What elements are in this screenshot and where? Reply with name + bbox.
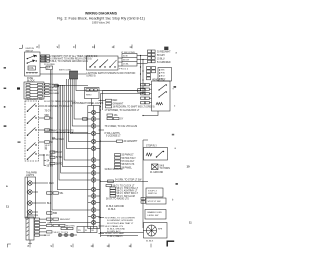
relay K1 box bbox=[25, 52, 41, 76]
bulb L7 bbox=[91, 158, 95, 162]
label dense cluster y155-166 bbox=[115, 154, 137, 167]
legend bottom rows bbox=[78, 230, 95, 232]
fuse out wires bbox=[44, 84, 50, 96]
svg-text:58 GY/WHT, ASH TRAY LT: 58 GY/WHT, ASH TRAY LT bbox=[107, 222, 134, 225]
headlight relay box bbox=[152, 81, 171, 111]
grid tick top 8 bbox=[36, 45, 39, 50]
tail out wire 4 bbox=[32, 211, 38, 213]
svg-text:RED: RED bbox=[49, 183, 54, 185]
lamp chain inner wire bbox=[93, 106, 95, 229]
svg-text:B/U: B/U bbox=[161, 76, 165, 78]
lamp left stubs bbox=[88, 113, 92, 223]
bottom connector ground stub bbox=[28, 240, 32, 243]
svg-text:COIL: COIL bbox=[29, 68, 35, 70]
svg-text:LEVEL SW: LEVEL SW bbox=[148, 215, 160, 217]
br connector rows bbox=[141, 198, 146, 204]
grid tick bottom 4 bbox=[91, 244, 94, 249]
left margin dash y88 bbox=[4, 88, 7, 89]
br box label bbox=[146, 188, 163, 197]
round component bbox=[144, 223, 168, 239]
svg-text:GY: GY bbox=[120, 118, 124, 120]
label conn rows bbox=[123, 56, 130, 66]
grid tick bottom 5 bbox=[107, 244, 110, 249]
wire sw to conn 2 bbox=[118, 61, 122, 63]
bulb L16 bbox=[91, 220, 95, 224]
label cluster row 5 bbox=[107, 114, 118, 117]
headlight relay contact 1 bbox=[158, 84, 167, 90]
bulb L4 bbox=[91, 131, 95, 135]
svg-text:GRN: GRN bbox=[47, 222, 52, 224]
svg-text:54 GRN, TO STOP LT SW: 54 GRN, TO STOP LT SW bbox=[115, 179, 142, 181]
grid blob right y87 bbox=[174, 86, 177, 88]
svg-text:30 RED/WHT: 30 RED/WHT bbox=[157, 52, 171, 54]
long wire y85.5 bbox=[54, 85, 88, 87]
svg-text:75 GY: 75 GY bbox=[45, 111, 52, 113]
svg-text:58 GRY: 58 GRY bbox=[157, 55, 165, 57]
bc extra rows bbox=[107, 222, 134, 233]
connector on y181 bbox=[108, 180, 114, 182]
tail inner wire bbox=[27, 177, 29, 218]
label cluster row 3 bbox=[106, 106, 155, 109]
tail out wire 1 bbox=[32, 182, 48, 184]
horizontal wire y90 bbox=[103, 90, 141, 92]
connector sw out 3 bbox=[45, 129, 50, 131]
lamps bbox=[91, 110, 95, 224]
svg-text:8 TAIL LIGHTS: 8 TAIL LIGHTS bbox=[105, 132, 121, 135]
relay bottom terminal row bbox=[26, 72, 38, 74]
svg-text:WIRING DIAGRAMS: WIRING DIAGRAMS bbox=[85, 12, 118, 16]
fuse out connectors bbox=[45, 83, 49, 94]
wire relay out 2 bbox=[40, 58, 47, 60]
svg-text:57 FOG RLY: 57 FOG RLY bbox=[122, 161, 135, 163]
svg-text:(GRID 9): (GRID 9) bbox=[87, 76, 96, 78]
flasher box bbox=[152, 164, 159, 170]
connector sw out 4 bbox=[45, 141, 50, 143]
connector boxes relay outputs bbox=[41, 55, 50, 62]
svg-text:STOP LT SW: STOP LT SW bbox=[148, 201, 162, 203]
lamp right stubs bbox=[96, 113, 100, 223]
ignition switch arm 3 bbox=[110, 60, 117, 67]
connector block B bbox=[147, 67, 156, 80]
connector block A bbox=[148, 50, 156, 63]
grid corner bottom-right bold bbox=[167, 241, 174, 246]
svg-text:INSTRUMENT PANEL LIGHTS: INSTRUMENT PANEL LIGHTS bbox=[72, 102, 104, 105]
svg-text:58 GY, ASHTRAY LT: 58 GY, ASHTRAY LT bbox=[117, 190, 138, 193]
switch element 1 bbox=[27, 104, 37, 112]
bulb L15 bbox=[91, 214, 95, 218]
ignition switch arm 1 bbox=[90, 60, 98, 68]
bottom connector hatch bbox=[27, 218, 29, 236]
wire long feed bbox=[40, 73, 87, 75]
bus strip pins bbox=[71, 71, 77, 78]
label cluster row 6 bbox=[107, 117, 124, 120]
crossing wire y132 bbox=[44, 132, 88, 134]
wire conn to bus 2 bbox=[137, 59, 148, 61]
svg-text:SWITCH: SWITCH bbox=[148, 193, 157, 195]
wire sw to conn 1 bbox=[118, 57, 122, 59]
svg-text:N/S: N/S bbox=[161, 70, 165, 72]
wire to wiper box 1 bbox=[101, 232, 144, 234]
svg-text:58 GY, TO PANEL LTS (GRID 9): 58 GY, TO PANEL LTS (GRID 9) bbox=[44, 100, 76, 103]
bottom connector divider bbox=[28, 217, 30, 240]
svg-text:58 GY, TO RADIO LTS: 58 GY, TO RADIO LTS bbox=[106, 197, 129, 200]
connector on wire y85.5 bbox=[54, 84, 58, 86]
svg-text:RL: RL bbox=[85, 230, 87, 232]
label block A bbox=[157, 52, 171, 64]
extra cluster row y166 bbox=[115, 166, 133, 169]
svg-text:58R: 58R bbox=[53, 213, 58, 215]
wire lamp out y130 bbox=[99, 129, 105, 131]
label left y157 row bbox=[50, 156, 63, 159]
headlight relay bottom wire bbox=[143, 111, 158, 116]
svg-text:20 GRN/WHT: 20 GRN/WHT bbox=[124, 141, 139, 143]
brake warn box bbox=[145, 210, 166, 220]
horizontal wire y93 bbox=[101, 93, 144, 95]
bulb L8 bbox=[91, 164, 95, 168]
svg-text:17 WHT/RED, TO GLOVE BOX LT: 17 WHT/RED, TO GLOVE BOX LT bbox=[105, 110, 140, 112]
grid tick top bbox=[92, 45, 95, 50]
wire long y181 bbox=[101, 180, 149, 182]
flasher X bbox=[152, 164, 159, 170]
relay K1 pin dots bbox=[27, 55, 37, 64]
right spine top bend bbox=[143, 139, 148, 141]
svg-text:58 GY/RED: 58 GY/RED bbox=[52, 139, 64, 141]
stop relay contact bbox=[156, 151, 164, 158]
headlight relay pair wires bbox=[149, 85, 151, 103]
grid tick top 11 bbox=[164, 47, 168, 50]
switch element 3 bbox=[27, 128, 37, 136]
svg-text:P R 0 1 2: P R 0 1 2 bbox=[119, 69, 129, 71]
switch out wire 1 bbox=[39, 105, 45, 107]
legend box bottom bbox=[77, 227, 97, 233]
svg-text:1993 Volvo 240: 1993 Volvo 240 bbox=[92, 20, 110, 24]
connector on bend y119 bbox=[83, 118, 88, 121]
svg-text:58 GY: 58 GY bbox=[123, 60, 130, 62]
svg-text:31 GROUND: 31 GROUND bbox=[150, 172, 164, 174]
bulb L9 bbox=[91, 171, 95, 175]
bottom row connector boxes bbox=[47, 218, 66, 233]
switch out wire 4 bbox=[39, 141, 45, 143]
bus connector strip bbox=[70, 71, 78, 79]
svg-text:31 BLK: 31 BLK bbox=[108, 209, 116, 211]
bulb L2 bbox=[91, 117, 95, 121]
svg-text:5 BLK, TO CHASSIS GROUND G101: 5 BLK, TO CHASSIS GROUND G101 bbox=[50, 60, 88, 63]
label row y136 bbox=[106, 136, 121, 138]
vertical wire x140 bbox=[140, 56, 142, 91]
grid label top STOP RLY bbox=[129, 45, 132, 49]
right spine wire bbox=[142, 140, 144, 228]
switch element 4 bbox=[27, 143, 37, 151]
label cluster row 2 bbox=[106, 102, 124, 105]
grid corner bottom-left bbox=[8, 244, 11, 247]
tail out wire 2 bbox=[32, 191, 38, 193]
junction dots on x100 vertical bbox=[100, 100, 101, 233]
wire relay out 1 bbox=[40, 55, 47, 57]
grid tick bottom 1 bbox=[28, 244, 31, 249]
label row y142 bbox=[101, 140, 139, 143]
bottom connector pin boxes bbox=[35, 218, 40, 236]
tail lamp 1 bbox=[27, 181, 32, 186]
ignition switch arm 2 bbox=[100, 60, 108, 68]
junction dots x140 bbox=[140, 55, 144, 94]
svg-text:15 BL: 15 BL bbox=[123, 64, 129, 66]
bottom connector box bbox=[26, 217, 34, 240]
wire bottom bulbs bbox=[62, 234, 77, 236]
title WIRING DIAGRAMS bbox=[57, 12, 145, 25]
round component hatch bbox=[147, 225, 157, 236]
brake warn text bbox=[148, 211, 163, 217]
wire relay to C1 bbox=[40, 67, 46, 69]
vertical wire x100 bbox=[100, 94, 102, 238]
connector tail 4 bbox=[47, 212, 53, 214]
svg-text:31 BLK GROUND: 31 BLK GROUND bbox=[105, 169, 123, 171]
wire to wiper box 2 bbox=[101, 234, 139, 236]
bulb L13 bbox=[91, 200, 95, 204]
grid letter left 9 top bbox=[4, 67, 6, 68]
junction dots on crossing bbox=[57, 132, 73, 133]
svg-text:10: 10 bbox=[187, 164, 191, 168]
connector tail 2 bbox=[47, 192, 59, 194]
dimmer connector block above lamp chain bbox=[85, 88, 100, 99]
grid letter left 10 bbox=[4, 125, 7, 126]
wire to round bbox=[143, 230, 147, 232]
svg-text:BLU/YEL: BLU/YEL bbox=[66, 225, 76, 227]
vertical wire x143 bbox=[142, 60, 144, 94]
svg-text:RED/WHT: RED/WHT bbox=[60, 219, 71, 221]
wire sw to conn 3 bbox=[118, 65, 122, 67]
bus wires vertical bbox=[57, 79, 140, 190]
bulb L11 bbox=[91, 187, 95, 191]
fuse out labels bbox=[50, 83, 59, 95]
svg-text:21 BLU/RED: 21 BLU/RED bbox=[44, 64, 55, 66]
svg-text:57 BN: 57 BN bbox=[56, 157, 63, 159]
switch out wire 5 bbox=[39, 154, 45, 156]
svg-text:58 RD: 58 RD bbox=[56, 163, 63, 165]
legend rows bbox=[161, 70, 166, 81]
svg-text:18 RED/WHT, TO INSTR LTS: 18 RED/WHT, TO INSTR LTS bbox=[44, 131, 74, 133]
svg-text:S/P: S/P bbox=[47, 68, 51, 70]
svg-text:RED: RED bbox=[113, 100, 118, 102]
svg-text:58 GY, PANEL LTS: 58 GY, PANEL LTS bbox=[105, 225, 124, 228]
switch out wire 2 bbox=[39, 117, 45, 119]
label accessory relay bbox=[26, 48, 35, 52]
svg-text:54 GRN/RED: 54 GRN/RED bbox=[157, 62, 171, 64]
bc row 1 bbox=[105, 217, 136, 238]
headlight relay contact 2 bbox=[158, 91, 167, 97]
relay K1 contact arm 1 bbox=[28, 55, 36, 59]
wire conn to bus 1 bbox=[137, 55, 148, 57]
bulb L1 bbox=[91, 110, 95, 114]
svg-text:11: 11 bbox=[6, 204, 9, 208]
ignition connector box bbox=[122, 54, 137, 67]
svg-text:30 B: 30 B bbox=[123, 56, 128, 58]
svg-text:15A: 15A bbox=[114, 114, 119, 117]
label left y152 row bbox=[50, 151, 63, 154]
legend bullets bbox=[159, 69, 160, 79]
label row y133 bbox=[105, 132, 121, 135]
ignition switch terminals bbox=[89, 66, 115, 67]
svg-text:55 PARK/LT: 55 PARK/LT bbox=[122, 154, 135, 157]
svg-text:56 GY: 56 GY bbox=[56, 152, 63, 154]
svg-text:8A PARK: 8A PARK bbox=[50, 92, 59, 95]
fuse rows bbox=[26, 83, 43, 97]
grid tick bottom 7 bbox=[150, 244, 152, 248]
tail lamp 2 bbox=[27, 190, 32, 195]
svg-text:31 BLK: 31 BLK bbox=[146, 241, 154, 243]
svg-text:15 BLU: 15 BLU bbox=[157, 58, 165, 60]
bottom small bulbs row bbox=[58, 233, 73, 236]
br box text bbox=[148, 190, 158, 195]
svg-text:BRAKE FLUID: BRAKE FLUID bbox=[148, 211, 163, 214]
bulb L5 bbox=[91, 139, 95, 143]
bus pair left bbox=[51, 70, 88, 223]
junction dot relay bottom bbox=[142, 115, 143, 116]
bottom row wires and labels bbox=[40, 219, 47, 235]
bulb L6 bbox=[91, 146, 95, 150]
svg-text:75 GY/RED, TO CIG LTR ILLUM: 75 GY/RED, TO CIG LTR ILLUM bbox=[105, 126, 138, 128]
relay K1 contact arm 2 bbox=[28, 60, 35, 63]
bulb L3 bbox=[91, 124, 95, 128]
ignition connector rows bbox=[122, 58, 137, 62]
tail lamp box bbox=[25, 177, 36, 218]
left margin dash bbox=[18, 142, 21, 143]
lamp chain box bbox=[88, 106, 100, 229]
bottom row labels bbox=[47, 219, 76, 234]
switch element 2 bbox=[27, 116, 37, 124]
grid corner top-left bbox=[19, 45, 22, 48]
svg-text:GRN/WHT: GRN/WHT bbox=[113, 103, 124, 105]
junction sw out 5 bbox=[43, 154, 44, 155]
vertical wire x102 bbox=[102, 91, 104, 111]
branch wire 5a bbox=[44, 155, 46, 161]
left margin dot y107 bbox=[4, 106, 6, 107]
svg-text:BULB FAIL: BULB FAIL bbox=[27, 214, 39, 217]
headlight switch box dashed bbox=[25, 101, 39, 161]
legend box bbox=[158, 68, 172, 82]
bulb L10 bbox=[91, 178, 95, 182]
tail out wire 3 bbox=[32, 202, 46, 204]
small box on wire y90 bbox=[138, 89, 146, 92]
svg-text:58 PANEL: 58 PANEL bbox=[122, 166, 133, 169]
wire dimmer down bbox=[91, 99, 93, 106]
relay K1 coil box bbox=[28, 66, 36, 70]
headlight relay connector pairs bbox=[141, 84, 150, 104]
svg-text:75 GY/RED, TO CIG LIGHTER: 75 GY/RED, TO CIG LIGHTER bbox=[105, 217, 136, 219]
svg-text:BLK: BLK bbox=[47, 203, 52, 205]
wire conn to bus 3 bbox=[137, 63, 148, 65]
switch out wire 3 bbox=[39, 129, 45, 131]
grid tick top 10 bbox=[112, 45, 115, 49]
svg-text:P/N: P/N bbox=[161, 73, 165, 75]
bottom connector extra boxes row y227 bbox=[61, 227, 73, 229]
svg-text:LIGHTS: LIGHTS bbox=[26, 175, 35, 177]
svg-text:56 HD/LT RLY: 56 HD/LT RLY bbox=[122, 158, 137, 160]
svg-text:LIGHTING SWITCH SHOWN IN OFF P: LIGHTING SWITCH SHOWN IN OFF POSITION bbox=[87, 73, 136, 75]
svg-text:54 B: 54 B bbox=[160, 165, 165, 167]
stop relay coil bbox=[146, 153, 152, 156]
label tail lamps bbox=[26, 172, 38, 177]
grid tick bottom 3 bbox=[71, 244, 74, 249]
stop light switch lower box bbox=[146, 198, 166, 204]
svg-text:2 RED/WHT, HOT AT ALL TIMES (G: 2 RED/WHT, HOT AT ALL TIMES (GRID 8) S/C bbox=[50, 55, 98, 58]
label cluster row 4 bbox=[105, 110, 140, 112]
label left y163 row bbox=[50, 162, 63, 165]
fuse row wires bbox=[30, 84, 38, 96]
svg-text:58 INST LTS: 58 INST LTS bbox=[122, 164, 135, 166]
svg-text:Fig. 3: Fuse Block, Headlight: Fig. 3: Fuse Block, Headlight Sw, Stop R… bbox=[57, 16, 145, 20]
svg-text:58 GY: 58 GY bbox=[44, 235, 51, 237]
svg-text:WPR: WPR bbox=[158, 229, 163, 231]
grid mark right y135 bbox=[172, 134, 174, 136]
svg-text:58R: 58R bbox=[45, 115, 50, 117]
switch element 5 bbox=[27, 152, 37, 160]
svg-text:54 GRN/WHT, HTR BLWR: 54 GRN/WHT, HTR BLWR bbox=[107, 220, 133, 222]
svg-text:TO HORN: TO HORN bbox=[160, 168, 171, 170]
svg-text:9 LICENSE LT: 9 LICENSE LT bbox=[106, 136, 121, 138]
grid mark right y183 bbox=[176, 183, 178, 185]
grid tick bottom 6 bbox=[129, 244, 132, 249]
label cluster y185-199 bbox=[106, 184, 139, 200]
ignition switch box bbox=[87, 56, 119, 70]
grid tick top bbox=[57, 45, 59, 50]
label cluster row 7 bbox=[105, 126, 138, 128]
label flasher bbox=[160, 165, 171, 170]
svg-text:6 GRN/WHT, TO HORN RELAY (GRID: 6 GRN/WHT, TO HORN RELAY (GRID 8) bbox=[50, 58, 92, 61]
junction dots on wire y85.5 bbox=[57, 85, 65, 86]
label fuse block bbox=[27, 78, 35, 82]
grid letter a left bbox=[17, 87, 20, 89]
wire relay out 3 bbox=[40, 60, 47, 62]
tail lamp 4 bbox=[27, 210, 32, 215]
label rows y205-210 bbox=[106, 206, 124, 211]
headlight relay coil bbox=[156, 102, 163, 105]
bc wires bbox=[99, 218, 105, 234]
grid tick top 9 bbox=[73, 45, 76, 50]
tail lamp 3 bbox=[27, 201, 32, 206]
fuse block box bbox=[24, 82, 44, 99]
connector sw out 2 bbox=[45, 117, 50, 119]
svg-text:RHEO: RHEO bbox=[86, 94, 92, 96]
svg-text:INSTR CONN: INSTR CONN bbox=[59, 69, 71, 71]
svg-text:31 BLK GROUND: 31 BLK GROUND bbox=[106, 206, 124, 208]
svg-text:18 RED/GRN, TO SHIFT IND LT (G: 18 RED/GRN, TO SHIFT IND LT (GRID 9) bbox=[113, 107, 155, 109]
bulb L14 bbox=[91, 208, 95, 212]
grid tick bottom 2 bbox=[51, 244, 54, 249]
label cluster row 1 bbox=[99, 99, 118, 102]
stop relay box bbox=[144, 148, 168, 161]
branch wire 5b bbox=[44, 161, 46, 166]
bulb L12 bbox=[91, 194, 95, 198]
connector C1 bbox=[46, 66, 53, 69]
